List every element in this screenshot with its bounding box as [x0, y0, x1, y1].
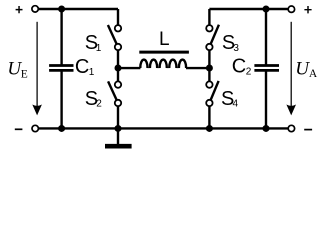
minus sign bottom-left — [15, 128, 23, 130]
capacitor C2 plates — [254, 66, 279, 71]
node C1 bottom junction — [58, 125, 65, 132]
U_A voltage arrow — [286, 22, 296, 116]
svg-text:C: C — [75, 56, 89, 78]
svg-text:4: 4 — [233, 98, 239, 109]
svg-text:2: 2 — [246, 67, 252, 78]
wire S2 top stub — [117, 68, 119, 85]
wire ground stem — [117, 128, 119, 144]
switch S3 bottom contact — [206, 44, 212, 50]
wire top-right rail — [209, 8, 288, 10]
wire S4 top stub — [208, 68, 210, 85]
wire C2 bottom branch — [265, 70, 267, 128]
svg-text:1: 1 — [96, 43, 102, 54]
terminal top-left — [32, 6, 38, 12]
wire C1 bottom branch — [60, 70, 62, 128]
switch S1 top contact — [115, 25, 121, 31]
node mid-left junction — [115, 65, 122, 72]
svg-text:L: L — [159, 29, 170, 50]
svg-text:C: C — [232, 56, 246, 78]
switch S3 top contact — [206, 25, 212, 31]
switch S3 lever — [209, 25, 219, 47]
node ground junction — [115, 125, 122, 132]
wire bottom rail — [38, 127, 288, 129]
terminal bottom-right — [288, 125, 294, 131]
terminal top-right — [288, 6, 294, 12]
switch S4 bottom contact — [206, 100, 212, 106]
switch S1 bottom contact — [115, 44, 121, 50]
wire inductor to mid-right — [186, 67, 209, 69]
label S4 — [221, 88, 239, 110]
wire S1 top stub — [117, 9, 119, 28]
U_E voltage arrow — [32, 22, 42, 116]
svg-text:A: A — [309, 68, 318, 80]
wire S3 bottom stub — [208, 47, 210, 68]
label S1 — [85, 32, 102, 54]
switch S2 bottom contact — [115, 100, 121, 106]
switch S1 lever — [108, 25, 118, 47]
switch S2 top contact — [115, 81, 121, 87]
label S2 — [85, 88, 103, 110]
ground bar — [105, 144, 132, 149]
switch S2 lever — [108, 81, 118, 103]
plus sign top-left — [16, 6, 23, 13]
plus sign top-right — [304, 6, 311, 13]
svg-text:E: E — [21, 68, 28, 80]
wire C2 top branch — [265, 9, 267, 66]
wire S4 bottom stub — [208, 103, 210, 128]
label S3 — [222, 32, 240, 54]
label U_A — [295, 59, 318, 81]
wire S1 bottom stub — [117, 47, 119, 68]
svg-text:2: 2 — [96, 98, 102, 109]
terminal bottom-left — [32, 125, 38, 131]
node C2 bottom junction — [263, 125, 270, 132]
inductor L core bar — [139, 51, 189, 54]
node C1 top junction — [58, 6, 65, 13]
minus sign bottom-right — [304, 129, 312, 131]
wire S2 bottom stub — [117, 103, 119, 128]
node C2 top junction — [263, 6, 270, 13]
svg-text:1: 1 — [89, 67, 95, 78]
wire top-left rail — [38, 8, 118, 10]
capacitor C1 plates — [49, 66, 73, 71]
switch S4 lever — [209, 81, 218, 103]
inductor L coil — [140, 60, 186, 68]
wire C1 top branch — [60, 9, 62, 66]
switch S4 top contact — [206, 81, 212, 87]
label C2 — [232, 56, 252, 78]
label C1 — [75, 56, 95, 78]
svg-text:3: 3 — [233, 43, 239, 54]
node S4 bottom junction — [206, 125, 213, 132]
wire S3 top stub — [208, 9, 210, 28]
wire mid-left to inductor — [118, 67, 140, 69]
node mid-right junction — [206, 65, 213, 72]
label U_E — [7, 59, 27, 81]
